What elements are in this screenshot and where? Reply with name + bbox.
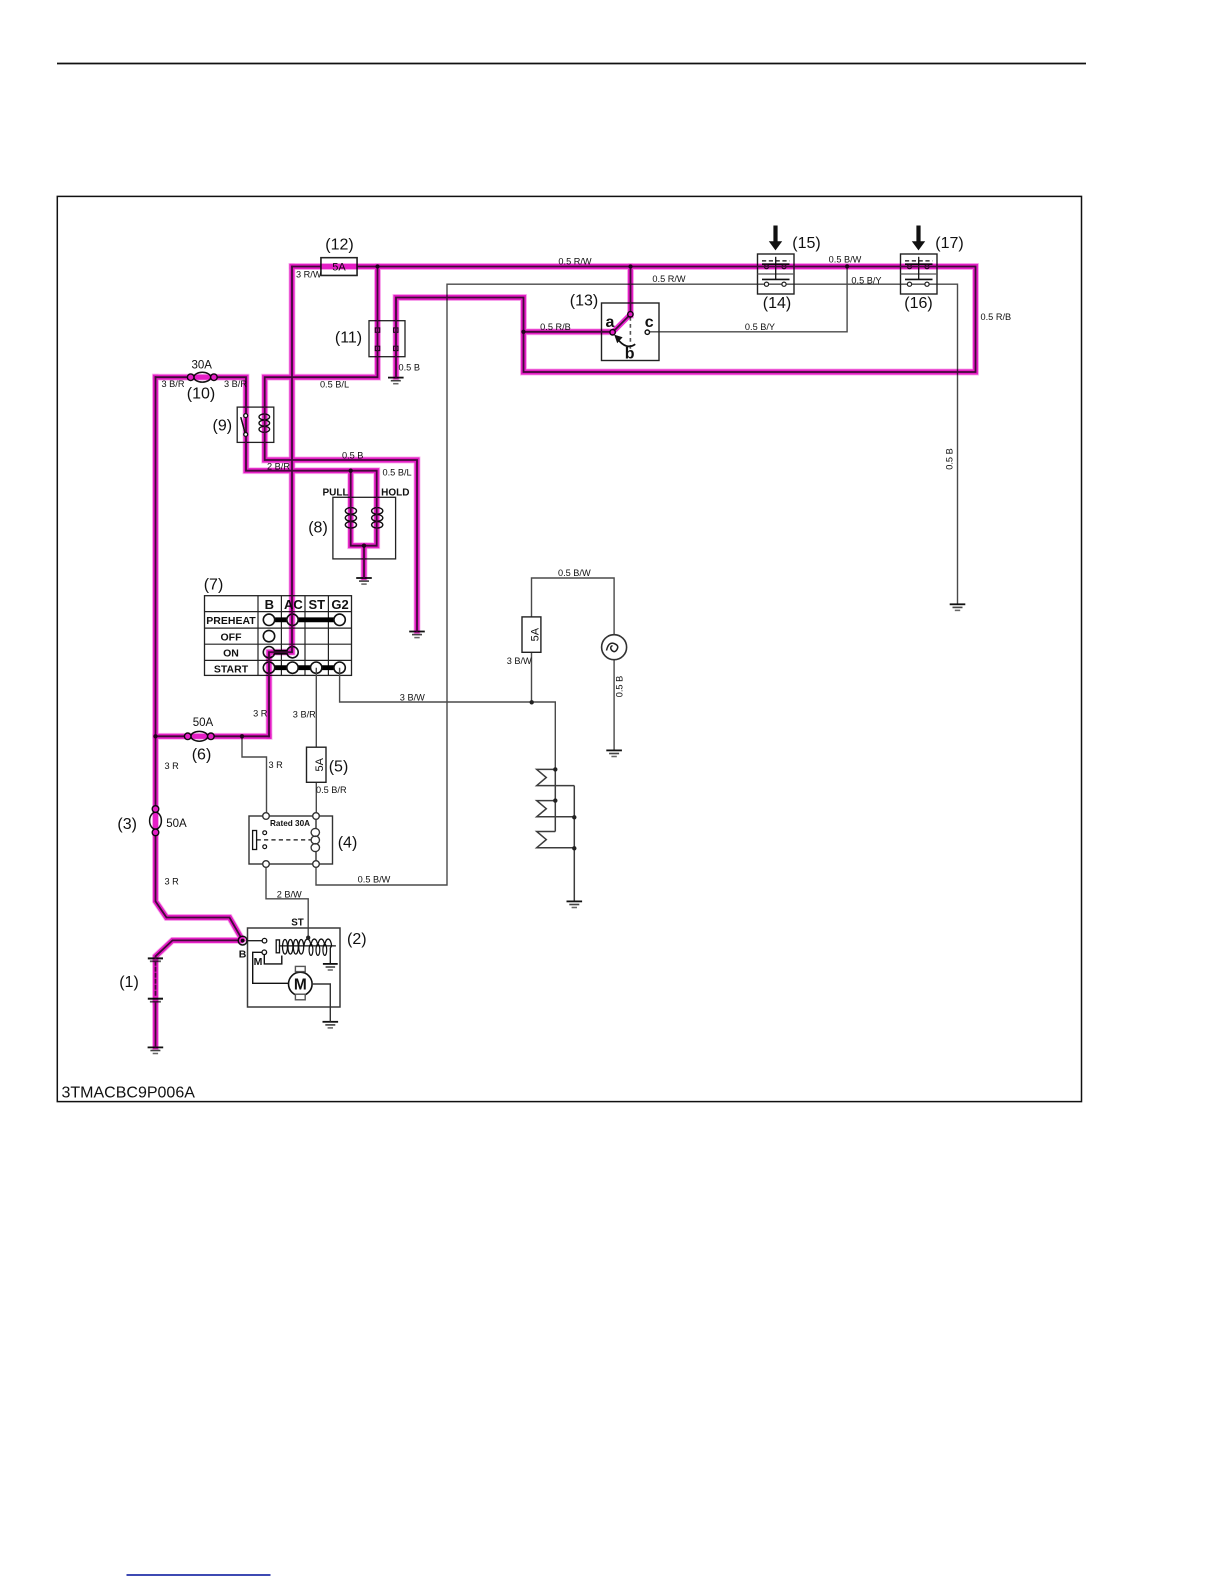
- svg-text:(13): (13): [570, 293, 598, 310]
- svg-text:50A: 50A: [166, 818, 187, 830]
- svg-text:2 B/W: 2 B/W: [277, 889, 302, 899]
- svg-text:(5): (5): [329, 759, 349, 776]
- svg-text:3 R: 3 R: [165, 761, 180, 771]
- svg-text:(12): (12): [325, 237, 353, 254]
- svg-text:c: c: [645, 314, 654, 331]
- svg-text:(9): (9): [213, 418, 233, 435]
- svg-text:M: M: [254, 956, 263, 968]
- svg-text:(2): (2): [347, 931, 367, 948]
- svg-text:0.5 B/W: 0.5 B/W: [358, 874, 391, 884]
- svg-text:5A: 5A: [314, 757, 326, 771]
- svg-text:50A: 50A: [193, 717, 214, 729]
- svg-text:PREHEAT: PREHEAT: [206, 615, 256, 627]
- svg-text:0.5 B/Y: 0.5 B/Y: [745, 322, 775, 332]
- svg-text:(11): (11): [335, 330, 362, 347]
- svg-text:0.5 B/W: 0.5 B/W: [558, 568, 591, 578]
- svg-text:(10): (10): [187, 385, 215, 402]
- svg-text:OFF: OFF: [221, 632, 243, 644]
- svg-text:3 B/R: 3 B/R: [293, 710, 316, 720]
- svg-text:3 R: 3 R: [165, 877, 180, 887]
- svg-text:(7): (7): [204, 576, 224, 593]
- svg-text:0.5 B/Y: 0.5 B/Y: [851, 276, 881, 286]
- svg-text:(15): (15): [792, 235, 820, 252]
- svg-text:3 R/W: 3 R/W: [296, 269, 322, 279]
- svg-text:ON: ON: [223, 648, 239, 660]
- svg-text:0.5 B/L: 0.5 B/L: [320, 379, 349, 389]
- svg-text:(16): (16): [904, 295, 932, 312]
- svg-text:PULL: PULL: [322, 487, 348, 498]
- svg-text:START: START: [214, 664, 249, 676]
- svg-text:B: B: [239, 949, 247, 961]
- svg-text:ST: ST: [291, 917, 304, 928]
- svg-text:5A: 5A: [530, 627, 542, 641]
- svg-text:(1): (1): [119, 974, 139, 991]
- svg-text:(14): (14): [763, 295, 791, 312]
- svg-text:0.5 B: 0.5 B: [614, 676, 624, 697]
- svg-text:3 R: 3 R: [269, 760, 284, 770]
- svg-text:G2: G2: [331, 597, 348, 612]
- svg-text:0.5 B/R: 0.5 B/R: [316, 785, 347, 795]
- svg-text:ST: ST: [308, 597, 325, 612]
- svg-text:Rated 30A: Rated 30A: [270, 819, 310, 828]
- svg-text:30A: 30A: [191, 360, 212, 372]
- svg-text:(6): (6): [192, 747, 212, 764]
- svg-text:B: B: [265, 597, 274, 612]
- svg-text:M: M: [294, 977, 307, 994]
- svg-text:3 B/W: 3 B/W: [507, 656, 532, 666]
- svg-text:0.5 B: 0.5 B: [399, 362, 420, 372]
- svg-text:(8): (8): [308, 520, 328, 537]
- svg-text:0.5 R/W: 0.5 R/W: [652, 274, 686, 284]
- svg-text:(17): (17): [935, 235, 963, 252]
- svg-text:(4): (4): [338, 835, 358, 852]
- svg-text:0.5 B: 0.5 B: [945, 448, 955, 469]
- svg-text:3 B/W: 3 B/W: [400, 693, 425, 703]
- svg-text:0.5 R/B: 0.5 R/B: [981, 312, 1012, 322]
- svg-text:HOLD: HOLD: [381, 487, 409, 498]
- svg-text:0.5 B/L: 0.5 B/L: [383, 467, 412, 477]
- svg-text:b: b: [625, 346, 635, 363]
- svg-text:(3): (3): [117, 816, 137, 833]
- svg-text:3TMACBC9P006A: 3TMACBC9P006A: [62, 1085, 196, 1102]
